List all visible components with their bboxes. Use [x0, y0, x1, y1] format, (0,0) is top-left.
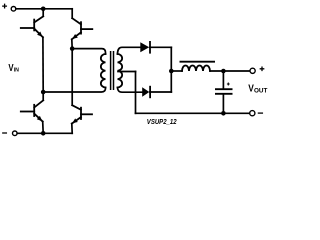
wire node to inductor [171, 70, 182, 72]
capacitor C1 polarity plus [227, 83, 230, 86]
terminal VIN- [13, 131, 18, 136]
plus sign VOUT+ [260, 67, 263, 70]
wire Q3 collector from mid node [42, 92, 44, 100]
wire primary top (mid node to winding) [72, 49, 105, 54]
wire left leg Q1 emitter to mid node [42, 37, 44, 92]
transistor Q3 [21, 100, 43, 121]
svg-text:OUT: OUT [254, 87, 268, 94]
wire bottom rail [17, 132, 72, 134]
wire right leg mid down to Q4 (crosses primary bottom wire) [71, 49, 73, 106]
minus sign VOUT- [258, 112, 262, 114]
minus sign VIN- [3, 132, 7, 134]
diode D1 [140, 42, 150, 53]
transformer T1 secondary winding [118, 54, 123, 88]
transistor Q2 [72, 18, 93, 39]
plus sign VIN+ [3, 4, 7, 8]
diode D2 [142, 87, 150, 98]
node capacitor bottom [221, 111, 226, 116]
transistor Q1 [21, 16, 43, 37]
wire secondary bottom lead (crosses tap vertical) [118, 88, 143, 93]
svg-text:IN: IN [14, 67, 19, 73]
wire D2 cathode to corner [150, 91, 171, 93]
node right leg mid (to primary top) [70, 46, 75, 51]
node left leg mid (to primary bottom) [41, 90, 46, 95]
wire center tap down to output return [135, 72, 137, 114]
wire Q3 emitter to bottom rail [42, 122, 45, 134]
wire secondary center tap [118, 71, 136, 73]
terminal VIN+ [11, 7, 16, 12]
transformer T1 primary winding [101, 54, 106, 88]
inductor L1 [182, 66, 210, 72]
wire Q4 emitter to bottom rail corner [71, 124, 73, 134]
inductor L1 core bar [180, 61, 216, 63]
capacitor C1 [215, 71, 233, 113]
transistor Q4 [72, 105, 92, 123]
node rectifier output [169, 69, 174, 74]
wire Q1 collector from top rail [42, 9, 44, 16]
wire primary bottom (left mid node to winding, crosses right leg) [43, 88, 105, 93]
transformer T1 core [111, 51, 114, 90]
wire rectifier output vertical [170, 47, 172, 92]
svg-text:VSUP2_12: VSUP2_12 [147, 117, 177, 126]
node bottom rail junction [41, 131, 46, 136]
terminal VOUT- [250, 111, 255, 116]
terminal VOUT+ [250, 68, 255, 73]
node capacitor top [221, 69, 226, 74]
wire D1 cathode to corner [150, 46, 172, 48]
wire top rail [16, 8, 72, 10]
wire right leg from top rail corner [71, 9, 73, 18]
wire secondary top lead [118, 47, 141, 54]
wire inductor to output terminal [210, 70, 250, 72]
wire output return rail [136, 112, 251, 114]
node top rail junction [41, 7, 46, 12]
wire right leg Q2 emitter to mid node [71, 39, 73, 48]
